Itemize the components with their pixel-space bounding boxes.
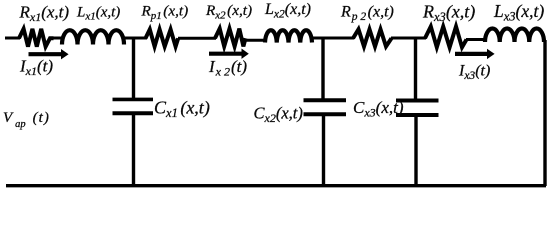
svg-text:Rp 2(x,t): Rp 2(x,t) <box>340 4 394 24</box>
svg-text:Cx3(x,t): Cx3(x,t) <box>353 98 404 120</box>
capacitor Cx2 <box>304 100 347 114</box>
inductor Lx2 <box>265 30 312 42</box>
wire node1 segment <box>124 37 147 40</box>
current arrow Ix1 <box>29 49 69 59</box>
svg-text:Rx3(x,t): Rx3(x,t) <box>422 2 475 25</box>
svg-text:Ix1(t): Ix1(t) <box>19 57 53 79</box>
wire <box>466 38 486 41</box>
wire cap3 to bus <box>414 116 417 187</box>
wire cap2 to bus <box>322 115 325 187</box>
svg-text:Rx2(x,t): Rx2(x,t) <box>205 2 252 22</box>
resistor Rx1 <box>19 29 54 47</box>
wire input left <box>5 37 20 40</box>
inductor Lx3 <box>485 29 544 43</box>
current arrow Ix2 <box>209 49 249 59</box>
wire node3 segment <box>391 37 426 40</box>
current arrow Ix3 <box>455 49 495 59</box>
ground bus wire <box>6 184 546 187</box>
capacitor Cx3 <box>396 101 439 116</box>
wire right edge down <box>543 40 546 186</box>
wire <box>246 39 267 42</box>
svg-text:Lx1(x,t): Lx1(x,t) <box>76 4 120 22</box>
wire node1 vertical <box>132 38 135 98</box>
wire <box>53 37 63 40</box>
resistor Rp2 <box>353 29 392 46</box>
svg-text:Rp1(x,t): Rp1(x,t) <box>141 3 189 23</box>
svg-text:Cx2(x,t): Cx2(x,t) <box>254 104 303 126</box>
wire node3 vertical <box>414 38 417 100</box>
svg-text:Lx2(x,t): Lx2(x,t) <box>264 1 311 21</box>
wire node2 segment <box>312 37 354 40</box>
svg-text:Cx1(x,t): Cx1(x,t) <box>154 98 210 121</box>
svg-text:Lx3(x,t): Lx3(x,t) <box>493 1 544 24</box>
resistor Rp1 <box>146 29 179 46</box>
resistor Rx2 <box>215 29 246 47</box>
resistor Rx3 <box>425 27 467 48</box>
svg-text:Rx1(x,t): Rx1(x,t) <box>19 3 70 25</box>
wire <box>178 37 216 40</box>
inductor Lx1 <box>62 30 124 44</box>
capacitor Cx1 <box>113 99 154 113</box>
wire node2 vertical <box>321 38 324 99</box>
wire cap1 to bus <box>132 114 135 187</box>
